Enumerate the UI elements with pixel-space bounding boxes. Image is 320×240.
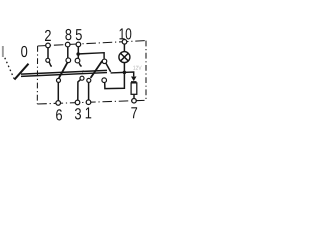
pin label 7 — [131, 107, 137, 118]
wire contact C to terminal 3 — [78, 80, 81, 100]
terminal 6 — [56, 101, 61, 106]
wire terminal 2 to contact C1 — [47, 48, 49, 58]
wire lamp junction to diode branch — [111, 72, 134, 76]
contact E slider tail to lamp wire — [106, 63, 111, 72]
switch housing border top (dash-dot) — [38, 41, 146, 46]
pin label 10 — [120, 28, 132, 39]
mechanical coupling bar lower line — [21, 73, 107, 77]
bridge contact A to C6 — [59, 63, 68, 79]
pin label 8 — [65, 29, 71, 40]
resistor R1 — [131, 83, 137, 94]
terminal 7 — [132, 98, 137, 103]
contact B slider tail — [79, 63, 82, 66]
wire contact F to lamp junction — [105, 74, 125, 89]
wire lamp to junction — [123, 63, 125, 72]
terminal 2 — [46, 43, 51, 48]
contact C6 — [57, 78, 61, 82]
terminal 1 — [86, 100, 91, 105]
switch housing border left (dash-dot) — [36, 46, 38, 104]
terminal 10 — [122, 40, 127, 45]
actuator lever arm — [14, 64, 28, 80]
contact E — [102, 59, 107, 64]
contact D — [87, 78, 91, 82]
wire junction 5 to contact E — [80, 53, 104, 59]
wire contact D to terminal 1 — [88, 83, 90, 100]
position label 0 — [21, 46, 27, 57]
terminal 5 — [76, 42, 81, 47]
junction node lamp — [123, 71, 127, 75]
switch housing border right (dash-dot) — [145, 41, 147, 101]
wire terminal 10 to lamp — [123, 44, 125, 51]
contact A — [66, 58, 71, 63]
contact C1 slider tail — [49, 62, 52, 66]
actuator reference post (gray) — [2, 46, 4, 57]
value label 12V — [133, 66, 141, 70]
contact C — [80, 76, 84, 80]
terminal 3 — [75, 100, 80, 105]
pin label 5 — [76, 29, 82, 40]
wire terminal 8 to contact A — [67, 47, 69, 58]
pin label 1 — [86, 107, 92, 118]
pin label 3 — [75, 108, 81, 119]
contact B — [75, 58, 80, 63]
contact C1 — [46, 58, 50, 62]
terminal 8 — [65, 42, 70, 47]
junction node under terminal 5 — [76, 52, 80, 56]
bridge contact D to E — [91, 61, 103, 78]
switch housing border bottom (dash-dot) — [37, 100, 146, 104]
wire resistor to terminal 7 — [133, 94, 135, 98]
lamp L — [119, 52, 130, 63]
mechanical coupling bar upper line — [21, 70, 107, 74]
wire contact C6 to terminal 6 — [57, 83, 59, 101]
slider nub on bar — [82, 71, 83, 73]
pin label 2 — [45, 30, 51, 41]
diode D1 — [131, 77, 137, 82]
actuator dotted link — [5, 58, 14, 79]
pin label 6 — [56, 109, 62, 120]
wire terminal 5 to contact B — [77, 47, 79, 58]
contact F — [102, 78, 107, 83]
